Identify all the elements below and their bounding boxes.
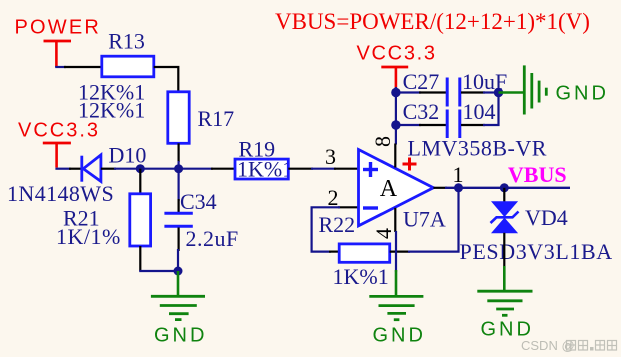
power flag VCC3.3 top — [381, 67, 408, 89]
svg-text:R17: R17 — [198, 106, 235, 131]
svg-text:C34: C34 — [180, 189, 217, 214]
junction C32 node — [391, 120, 400, 129]
wire VCC to caps — [395, 87, 397, 129]
ground GND3 — [477, 291, 532, 315]
TVS diode VD4 — [491, 188, 519, 233]
wire VCC3.3 to D10 — [55, 168, 81, 170]
ground GND1 — [151, 271, 205, 320]
resistor R19 — [235, 159, 288, 179]
svg-text:A: A — [380, 176, 398, 202]
wire D10 to node A — [101, 168, 236, 170]
wire R19 to pin 3 — [288, 168, 358, 170]
resistor R17 — [168, 92, 189, 144]
svg-text:GND: GND — [154, 325, 207, 347]
junction C27 node — [391, 88, 400, 97]
wire R17 to node B — [178, 143, 180, 168]
junction ground node — [174, 267, 183, 276]
svg-text:2: 2 — [328, 185, 339, 210]
svg-text:1: 1 — [453, 162, 464, 187]
svg-text:GND: GND — [373, 325, 426, 347]
wire VD4 to GND3 — [503, 233, 505, 291]
power flag VCC3.3 left — [43, 143, 71, 168]
svg-text:POWER: POWER — [15, 17, 102, 39]
wire C34 to ground node — [177, 228, 180, 272]
svg-text:VCC3.3: VCC3.3 — [18, 120, 100, 142]
svg-text:VD4: VD4 — [525, 205, 568, 230]
wire R22 to output feedback — [390, 188, 459, 252]
junction node A — [136, 164, 145, 173]
svg-text:VBUS=POWER/(12+12+1)*1(V): VBUS=POWER/(12+12+1)*1(V) — [275, 9, 590, 34]
wire node A to R21 — [139, 169, 141, 194]
svg-text:PESD3V3L1BA: PESD3V3L1BA — [460, 239, 613, 264]
svg-text:C27: C27 — [403, 69, 440, 94]
op-amp U7A — [359, 150, 434, 226]
wire C27 left — [396, 91, 446, 93]
junction VBUS node — [500, 183, 509, 192]
svg-text:3: 3 — [325, 144, 336, 169]
svg-text:VCC3.3: VCC3.3 — [357, 43, 437, 65]
ground GND2 — [369, 296, 423, 319]
wire R13 to R17 — [154, 67, 179, 92]
op-amp plus input mark — [363, 162, 378, 177]
capacitor C34 — [164, 213, 192, 226]
svg-text:R19: R19 — [239, 137, 276, 162]
junction GND4 node — [494, 88, 503, 97]
capacitor C32 — [447, 110, 460, 139]
svg-text:104: 104 — [463, 99, 496, 124]
svg-text:1N4148WS: 1N4148WS — [7, 181, 114, 206]
svg-text:1K%1: 1K%1 — [333, 264, 389, 289]
op-amp minus input mark — [363, 206, 378, 209]
svg-text:R22: R22 — [319, 212, 356, 237]
svg-text:VBUS: VBUS — [508, 162, 567, 187]
capacitor C27 — [447, 78, 460, 107]
power flag POWER — [44, 41, 72, 67]
svg-text:GND: GND — [556, 83, 609, 105]
watermark CSDN — [521, 338, 617, 353]
resistor R21 — [130, 194, 151, 246]
wire C32 right up to node — [461, 93, 499, 126]
svg-text:C32: C32 — [403, 99, 440, 124]
resistor R22 — [339, 244, 390, 262]
wire C32 left — [396, 124, 446, 126]
svg-text:2.2uF: 2.2uF — [186, 226, 239, 251]
svg-text:D10: D10 — [109, 143, 147, 168]
wire to GND4 — [499, 91, 524, 94]
diode D10 — [82, 155, 101, 182]
ground GND4 sideways — [524, 65, 546, 114]
pin 4 wire — [394, 208, 397, 296]
svg-text:8: 8 — [370, 136, 395, 147]
resistor R13 — [102, 56, 154, 77]
svg-text:1K/1%: 1K/1% — [56, 224, 121, 249]
junction output node — [454, 183, 463, 192]
wire output pin 1 — [433, 187, 570, 189]
wire C27 right — [461, 91, 499, 93]
svg-text:U7A: U7A — [403, 207, 446, 232]
junction node B — [174, 164, 183, 173]
op-amp red power plus mark — [403, 158, 417, 171]
svg-text:LMV358B-VR: LMV358B-VR — [408, 136, 547, 161]
svg-text:R13: R13 — [108, 29, 145, 54]
pin 8 wire — [395, 127, 397, 145]
wire node B to C34 — [178, 169, 180, 212]
wire R21 to ground node — [139, 246, 178, 271]
wire POWER to R13 — [55, 66, 102, 68]
wire pin 2 loop — [312, 207, 359, 251]
svg-text:4: 4 — [371, 228, 396, 239]
